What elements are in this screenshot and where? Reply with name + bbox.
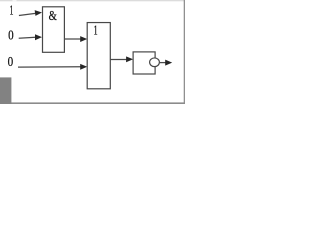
gray block bottom-left (0, 77, 11, 104)
OR gate U2 box (87, 23, 110, 89)
arrowhead a5 (126, 56, 133, 62)
frame top border (0, 0, 185, 1)
frame bottom border (0, 102, 185, 104)
top border notch (13, 0, 17, 1)
svg-text:1: 1 (10, 3, 14, 18)
arrowhead a2 (35, 34, 42, 40)
svg-text:0: 0 (8, 54, 14, 69)
inverter U3 bubble (150, 58, 160, 67)
arrowhead a3 (80, 36, 87, 42)
svg-text:&: & (49, 8, 58, 23)
inverter U3 box (133, 52, 155, 74)
arrowhead a4 (80, 64, 87, 70)
wire w3 (U1 output to U2) (64, 38, 81, 40)
arrowhead a1 (35, 10, 42, 16)
wire w5 (U2 output to U3) (110, 58, 127, 60)
frame right border (184, 0, 185, 104)
wire w1 (input 1 to U1) (19, 13, 36, 15)
AND gate U1 box (43, 7, 65, 53)
svg-text:1: 1 (94, 24, 98, 39)
svg-text:0: 0 (8, 28, 14, 43)
wire w2 (input 0 to U1) (19, 37, 36, 38)
wire w6 (U3 output) (160, 62, 166, 64)
wire w4 (input 0 to U2) (18, 66, 81, 68)
arrowhead a6 (165, 60, 172, 66)
